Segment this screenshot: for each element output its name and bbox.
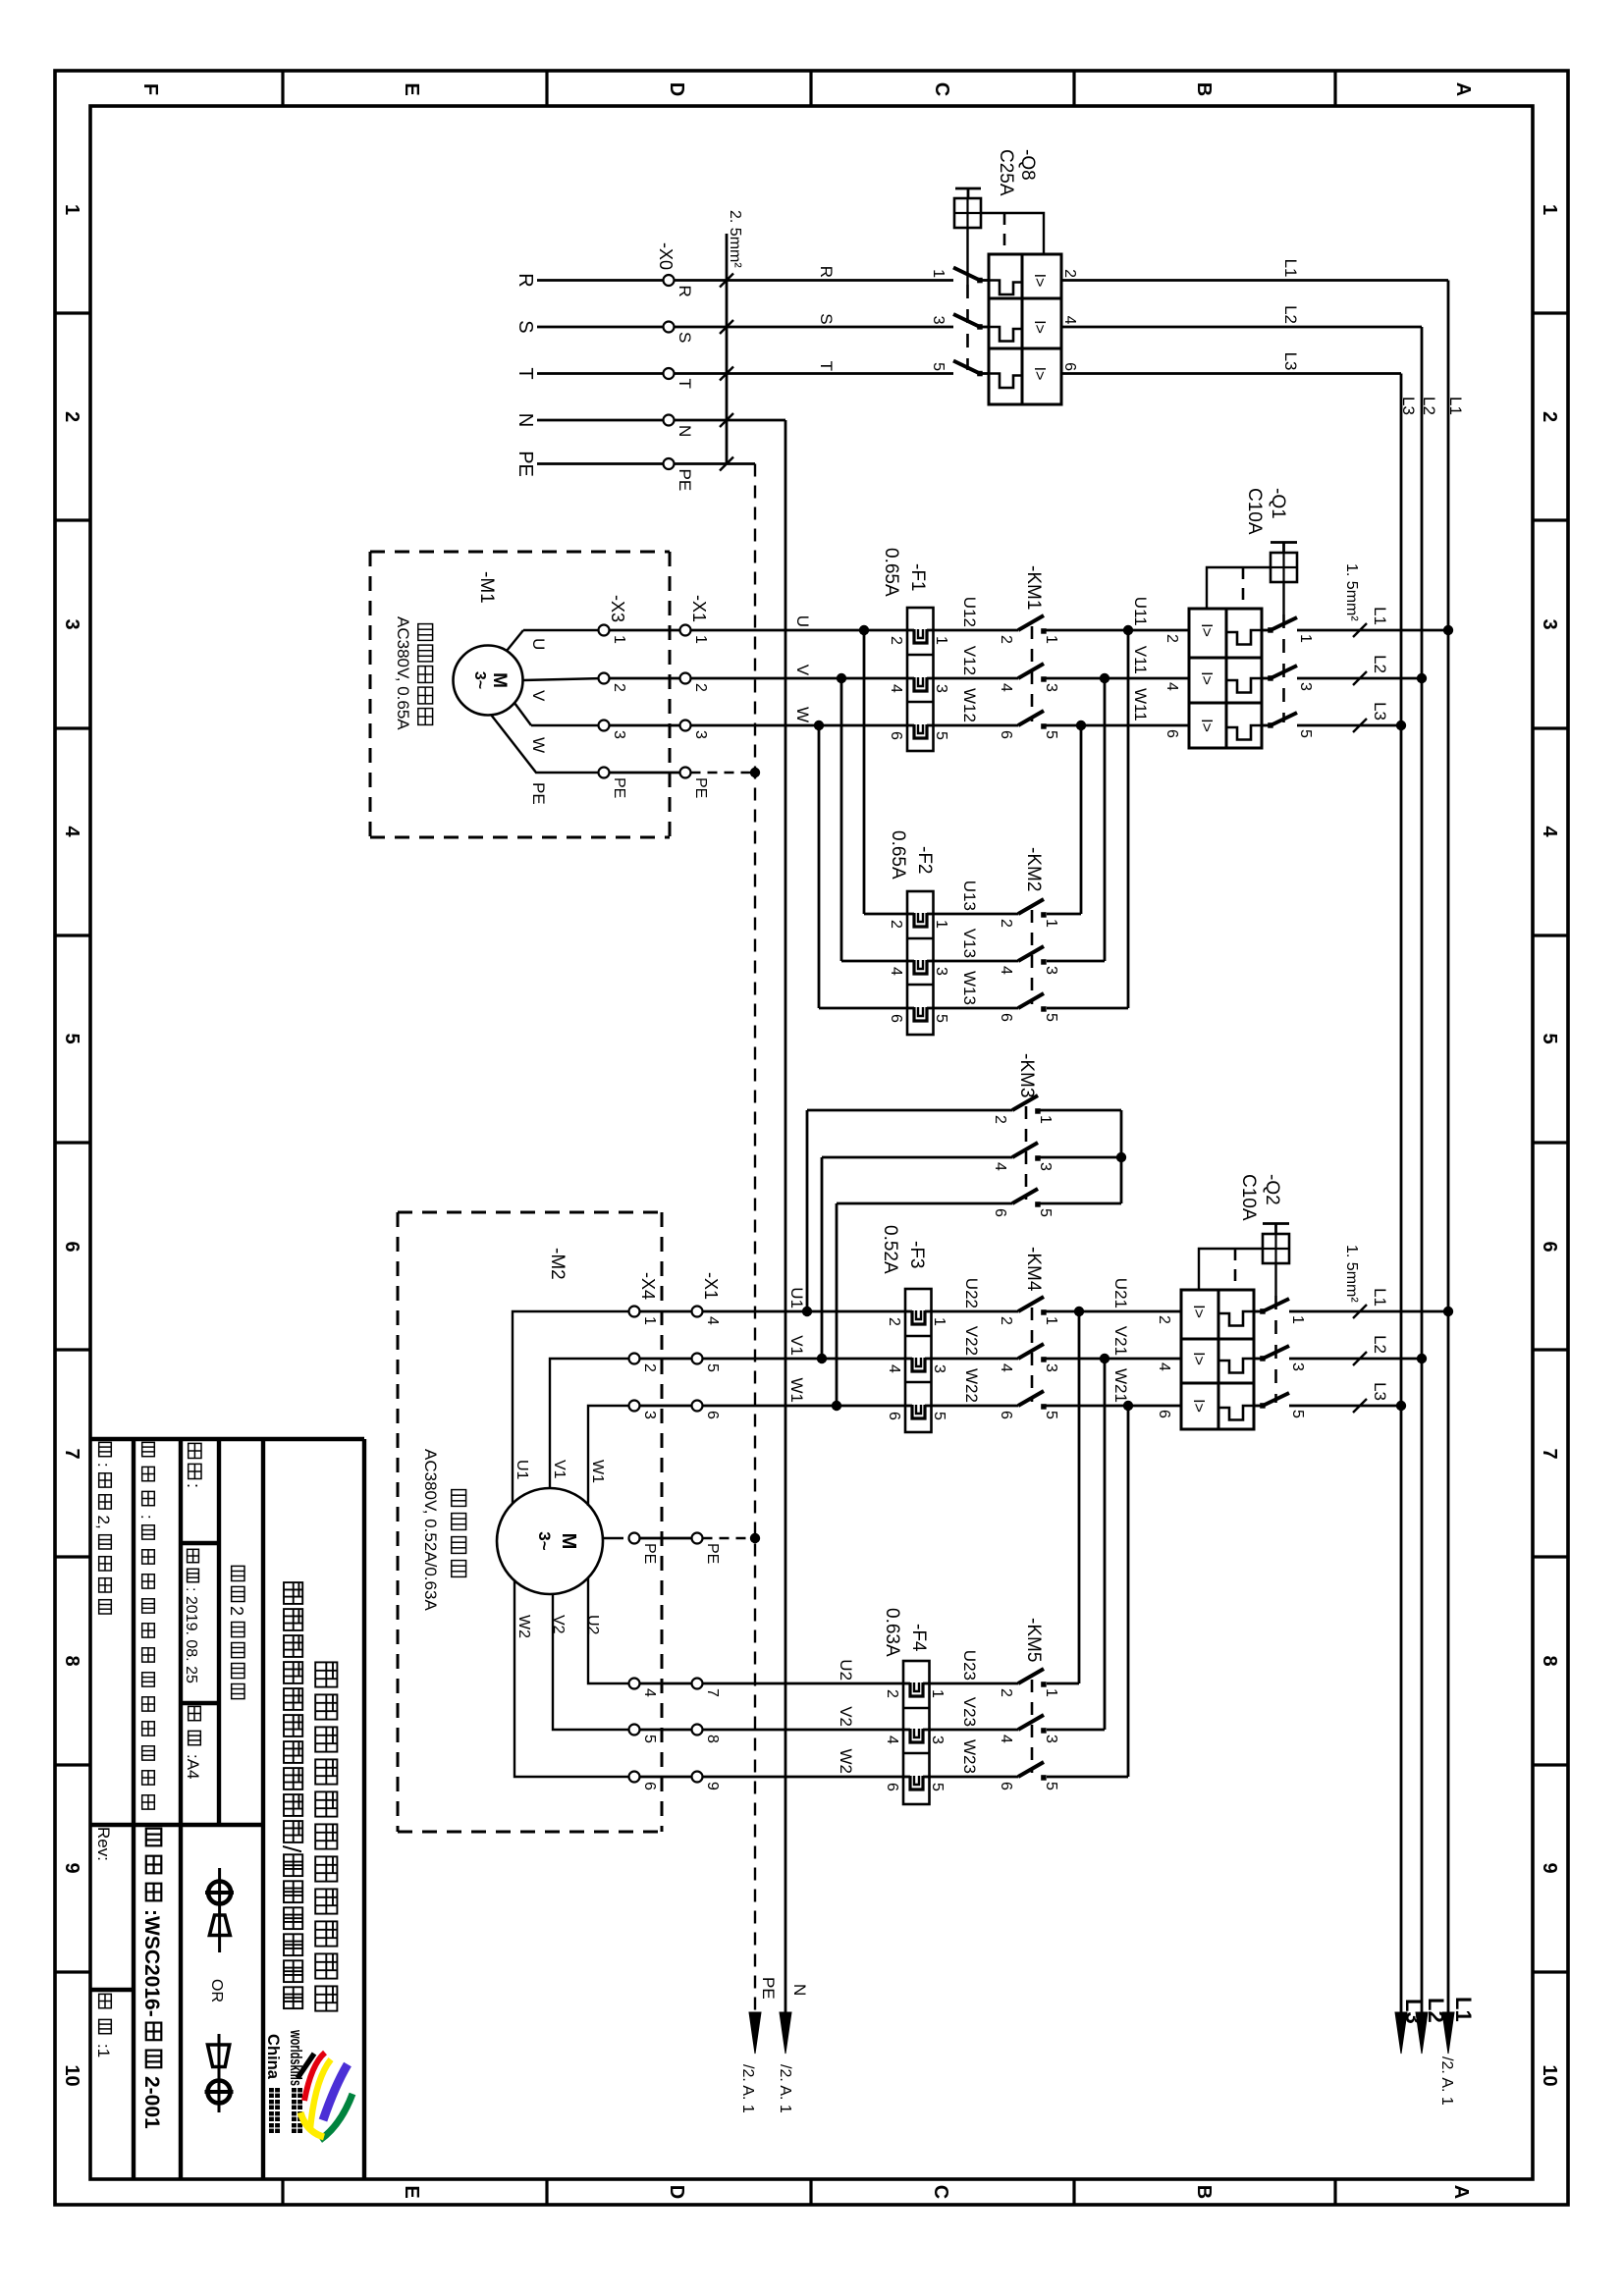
svg-text:1: 1 xyxy=(1043,635,1059,644)
svg-text:2,: 2, xyxy=(94,1516,113,1534)
svg-text:I>: I> xyxy=(1190,1305,1207,1318)
svg-text:5: 5 xyxy=(61,1033,82,1043)
svg-text:-X1: -X1 xyxy=(701,1272,721,1300)
svg-text:3: 3 xyxy=(1539,618,1560,629)
svg-text:-F4: -F4 xyxy=(908,1624,929,1652)
svg-text:L2: L2 xyxy=(1424,1998,1448,2023)
svg-text:2: 2 xyxy=(1156,1315,1172,1324)
svg-text:-M1: -M1 xyxy=(476,571,497,604)
svg-text:L2: L2 xyxy=(1281,305,1300,324)
svg-text:2: 2 xyxy=(888,920,904,929)
svg-text:L3: L3 xyxy=(1401,1999,1426,2024)
svg-text:V22: V22 xyxy=(962,1326,981,1356)
svg-text:L1: L1 xyxy=(1371,1288,1389,1307)
svg-text:D: D xyxy=(666,82,687,96)
svg-text:V21: V21 xyxy=(1111,1326,1130,1356)
svg-text:0.52A: 0.52A xyxy=(880,1225,900,1274)
svg-text:PE: PE xyxy=(529,782,548,805)
svg-text:PE: PE xyxy=(514,451,536,477)
svg-text:1: 1 xyxy=(61,204,82,215)
svg-text:3: 3 xyxy=(1289,1362,1306,1371)
svg-text:W: W xyxy=(529,737,548,753)
svg-text:I>: I> xyxy=(1198,671,1215,685)
svg-text:W21: W21 xyxy=(1111,1368,1130,1403)
svg-text:PE: PE xyxy=(676,469,694,492)
svg-text:7: 7 xyxy=(1539,1448,1560,1459)
svg-text:2-001: 2-001 xyxy=(140,2076,163,2129)
svg-text:W11: W11 xyxy=(1131,688,1150,721)
svg-text:4: 4 xyxy=(1156,1362,1172,1371)
svg-text:4: 4 xyxy=(1539,826,1560,837)
svg-text:-KM5: -KM5 xyxy=(1023,1618,1044,1662)
svg-text:9: 9 xyxy=(61,1862,82,1873)
svg-text:3: 3 xyxy=(1043,1363,1059,1372)
svg-text:V2: V2 xyxy=(837,1706,855,1727)
svg-text:-X0: -X0 xyxy=(656,242,676,270)
svg-text:6: 6 xyxy=(884,1783,900,1791)
svg-text:6: 6 xyxy=(998,1411,1014,1419)
svg-text:T: T xyxy=(817,361,836,371)
svg-text:10: 10 xyxy=(1539,2064,1560,2086)
svg-text:U23: U23 xyxy=(960,1650,979,1681)
svg-text:6: 6 xyxy=(992,1208,1008,1217)
svg-text:-KM1: -KM1 xyxy=(1023,565,1044,610)
svg-text:V1: V1 xyxy=(787,1335,806,1356)
svg-text:3: 3 xyxy=(930,316,947,325)
svg-text:L2: L2 xyxy=(1371,655,1389,673)
svg-text:PE: PE xyxy=(641,1543,658,1564)
svg-text:2: 2 xyxy=(998,1688,1014,1697)
svg-text:5: 5 xyxy=(929,1783,946,1791)
svg-text:2: 2 xyxy=(992,1115,1008,1124)
svg-text:Rev:: Rev: xyxy=(94,1827,113,1861)
svg-text:1: 1 xyxy=(1297,634,1314,643)
svg-text::WSC2016-: :WSC2016- xyxy=(140,1909,163,2017)
svg-text:2: 2 xyxy=(61,411,82,422)
svg-text:S: S xyxy=(817,313,836,324)
svg-text:4: 4 xyxy=(704,1316,721,1325)
svg-text:0.65A: 0.65A xyxy=(888,830,908,880)
svg-text:2: 2 xyxy=(1163,634,1180,643)
svg-text:0.63A: 0.63A xyxy=(882,1608,902,1657)
svg-text:6: 6 xyxy=(888,731,904,740)
svg-text:5: 5 xyxy=(1539,1033,1560,1043)
svg-text:V: V xyxy=(529,690,548,702)
svg-text:W22: W22 xyxy=(962,1368,981,1403)
svg-text:L3: L3 xyxy=(1371,1382,1389,1401)
svg-text:4: 4 xyxy=(886,1364,902,1373)
svg-text:2: 2 xyxy=(641,1363,658,1372)
svg-text:2: 2 xyxy=(611,683,627,692)
svg-text:S: S xyxy=(514,320,536,333)
svg-text:3: 3 xyxy=(692,730,709,739)
svg-text:V12: V12 xyxy=(960,646,979,675)
svg-text:-KM2: -KM2 xyxy=(1023,847,1044,891)
svg-text:1. 5mm²: 1. 5mm² xyxy=(1343,563,1360,621)
svg-text:4: 4 xyxy=(641,1688,658,1697)
svg-text:1: 1 xyxy=(1043,1688,1059,1697)
svg-text:M: M xyxy=(558,1533,579,1550)
svg-text:1: 1 xyxy=(933,920,949,929)
svg-text:3: 3 xyxy=(931,1364,947,1373)
svg-text:1: 1 xyxy=(1037,1115,1054,1124)
svg-text:2: 2 xyxy=(888,636,904,645)
svg-text:L2: L2 xyxy=(1371,1335,1389,1354)
svg-text:3~: 3~ xyxy=(471,671,488,689)
svg-text:W1: W1 xyxy=(787,1378,806,1404)
svg-text:U1: U1 xyxy=(514,1460,530,1480)
svg-text:6: 6 xyxy=(1061,362,1078,371)
svg-text:U2: U2 xyxy=(584,1615,601,1635)
svg-text:9: 9 xyxy=(1539,1862,1560,1873)
svg-text:M: M xyxy=(489,672,510,688)
svg-text:5: 5 xyxy=(931,1412,947,1420)
svg-text:5: 5 xyxy=(1037,1208,1054,1217)
svg-text:-F2: -F2 xyxy=(914,846,935,875)
svg-text:L1: L1 xyxy=(1371,607,1389,625)
svg-text:3: 3 xyxy=(929,1735,946,1744)
svg-text:B: B xyxy=(1193,2185,1215,2199)
svg-text:5: 5 xyxy=(1043,1013,1059,1022)
svg-text:-KM3: -KM3 xyxy=(1016,1053,1037,1097)
svg-text:6: 6 xyxy=(886,1412,902,1420)
svg-text:U: U xyxy=(529,638,548,650)
svg-text:4: 4 xyxy=(61,826,82,837)
svg-text:6: 6 xyxy=(1163,729,1180,738)
svg-text:6: 6 xyxy=(704,1411,721,1419)
svg-text:1: 1 xyxy=(1289,1315,1306,1324)
svg-text:3: 3 xyxy=(933,684,949,693)
svg-text:7: 7 xyxy=(704,1688,721,1697)
svg-text:V23: V23 xyxy=(960,1697,979,1727)
svg-text:2: 2 xyxy=(227,1606,246,1621)
svg-text:6: 6 xyxy=(641,1782,658,1790)
svg-text:6: 6 xyxy=(1156,1410,1172,1418)
svg-text:V1: V1 xyxy=(551,1460,568,1479)
svg-text:C10A: C10A xyxy=(1244,488,1265,535)
svg-text:5: 5 xyxy=(1043,1411,1059,1419)
svg-text:3: 3 xyxy=(1043,683,1059,692)
svg-text:C: C xyxy=(930,2185,951,2199)
svg-text:3: 3 xyxy=(1043,966,1059,975)
svg-text:U: U xyxy=(793,615,812,627)
svg-text:3: 3 xyxy=(641,1411,658,1419)
svg-text:E: E xyxy=(401,2185,422,2198)
svg-text:/2. A. 1: /2. A. 1 xyxy=(1438,2056,1455,2106)
svg-text:R: R xyxy=(514,273,536,287)
svg-text:W: W xyxy=(793,707,812,722)
svg-text:1. 5mm²: 1. 5mm² xyxy=(1343,1245,1360,1303)
svg-text:4: 4 xyxy=(998,1735,1014,1743)
svg-text:-M2: -M2 xyxy=(547,1248,568,1280)
svg-text:-X1: -X1 xyxy=(689,595,709,622)
svg-text:4: 4 xyxy=(1163,682,1180,691)
svg-text:W1: W1 xyxy=(589,1460,606,1483)
svg-text::: : xyxy=(184,1483,203,1488)
svg-text:1: 1 xyxy=(1539,204,1560,215)
svg-text:-F1: -F1 xyxy=(907,563,928,592)
svg-text:E: E xyxy=(401,82,422,95)
svg-text:PE: PE xyxy=(704,1543,721,1564)
svg-text:2: 2 xyxy=(692,683,709,692)
svg-text:2: 2 xyxy=(998,1316,1014,1325)
svg-text:W13: W13 xyxy=(960,971,979,1005)
svg-text:5: 5 xyxy=(704,1363,721,1372)
svg-text:N: N xyxy=(676,425,694,437)
svg-text:/2. A. 1: /2. A. 1 xyxy=(739,2064,756,2113)
svg-text:-F3: -F3 xyxy=(906,1241,927,1269)
svg-text:A: A xyxy=(1450,2185,1472,2199)
svg-text:L3: L3 xyxy=(1371,702,1389,721)
svg-text:6: 6 xyxy=(1539,1241,1560,1252)
svg-text:I>: I> xyxy=(1031,320,1048,334)
svg-text:V: V xyxy=(793,665,812,676)
svg-text:4: 4 xyxy=(1061,316,1078,325)
svg-text:-KM4: -KM4 xyxy=(1023,1247,1044,1292)
svg-text:6: 6 xyxy=(61,1241,82,1252)
svg-text:W2: W2 xyxy=(515,1615,532,1638)
svg-text:W23: W23 xyxy=(960,1739,979,1774)
svg-text:OR: OR xyxy=(208,1979,225,2002)
svg-text:F: F xyxy=(139,83,161,95)
svg-text:2: 2 xyxy=(998,919,1014,928)
svg-text:R: R xyxy=(676,286,694,297)
svg-text:worldskills: worldskills xyxy=(287,2029,305,2086)
svg-text:-X3: -X3 xyxy=(608,595,627,622)
svg-text:T: T xyxy=(676,379,694,389)
svg-text:I>: I> xyxy=(1031,367,1048,381)
svg-text:3~: 3~ xyxy=(535,1531,554,1550)
svg-text:1: 1 xyxy=(931,1317,947,1326)
svg-text:6: 6 xyxy=(998,1013,1014,1022)
svg-text:2: 2 xyxy=(886,1317,902,1326)
svg-text:U1: U1 xyxy=(787,1287,806,1308)
svg-text:5: 5 xyxy=(930,362,947,371)
svg-text:5: 5 xyxy=(1043,1782,1059,1790)
svg-text:N: N xyxy=(790,1984,809,1996)
svg-text:C10A: C10A xyxy=(1238,1174,1259,1221)
svg-text:8: 8 xyxy=(704,1735,721,1743)
svg-text:U13: U13 xyxy=(960,881,979,911)
svg-text:4: 4 xyxy=(888,684,904,693)
svg-text:1: 1 xyxy=(929,1689,946,1698)
svg-text:9: 9 xyxy=(704,1782,721,1790)
svg-text:C: C xyxy=(931,82,952,96)
svg-text:U2: U2 xyxy=(837,1659,855,1681)
svg-text:3: 3 xyxy=(1297,682,1314,691)
svg-text:2. 5mm²: 2. 5mm² xyxy=(727,210,743,268)
svg-text::: : xyxy=(137,1515,156,1523)
svg-text:L3: L3 xyxy=(1281,352,1300,371)
svg-text:3: 3 xyxy=(1043,1735,1059,1743)
svg-text:I>: I> xyxy=(1190,1399,1207,1413)
svg-text:B: B xyxy=(1193,82,1215,96)
svg-text:5: 5 xyxy=(1297,729,1314,738)
svg-text:PE: PE xyxy=(611,777,627,798)
svg-text:C25A: C25A xyxy=(996,149,1016,196)
svg-text:-Q8: -Q8 xyxy=(1017,149,1038,181)
svg-text:1: 1 xyxy=(1043,919,1059,928)
svg-text:3: 3 xyxy=(611,730,627,739)
svg-text:4: 4 xyxy=(992,1162,1008,1171)
svg-text:T: T xyxy=(514,367,536,379)
svg-text:U11: U11 xyxy=(1131,597,1150,626)
svg-text:S: S xyxy=(676,332,694,343)
svg-text:-X4: -X4 xyxy=(638,1272,658,1300)
svg-text:-Q1: -Q1 xyxy=(1268,488,1288,519)
svg-text:10: 10 xyxy=(61,2064,82,2086)
svg-text:5: 5 xyxy=(1289,1410,1306,1418)
svg-text:2: 2 xyxy=(1539,411,1560,422)
svg-text:3: 3 xyxy=(933,967,949,976)
svg-text:5: 5 xyxy=(1043,730,1059,739)
svg-text:1: 1 xyxy=(641,1316,658,1325)
svg-text:I>: I> xyxy=(1190,1352,1207,1365)
svg-text:4: 4 xyxy=(998,1363,1014,1372)
svg-text:I>: I> xyxy=(1031,274,1048,288)
svg-text:AC380V, 0.52A/0.63A: AC380V, 0.52A/0.63A xyxy=(421,1449,440,1611)
svg-text:I>: I> xyxy=(1198,719,1215,732)
svg-text:4: 4 xyxy=(888,967,904,976)
svg-text:A: A xyxy=(1452,82,1474,96)
svg-text:U12: U12 xyxy=(960,597,979,627)
svg-text:1: 1 xyxy=(1043,1316,1059,1325)
svg-text:R: R xyxy=(817,266,836,278)
svg-text:I>: I> xyxy=(1198,623,1215,637)
svg-text:L1: L1 xyxy=(1281,259,1300,278)
svg-text:0.65A: 0.65A xyxy=(881,548,901,597)
svg-text:-Q2: -Q2 xyxy=(1262,1174,1282,1205)
svg-text:PE: PE xyxy=(759,1977,778,2000)
svg-text::: : xyxy=(94,1463,113,1471)
svg-text:1: 1 xyxy=(692,635,709,644)
svg-text:2: 2 xyxy=(1061,269,1078,278)
svg-text:6: 6 xyxy=(998,1782,1014,1790)
svg-text:N: N xyxy=(514,413,536,427)
svg-text:PE: PE xyxy=(692,777,709,798)
svg-text:1: 1 xyxy=(930,269,947,278)
svg-text:D: D xyxy=(666,2185,687,2199)
svg-text:L2: L2 xyxy=(1420,397,1438,415)
svg-text:4: 4 xyxy=(998,683,1014,692)
svg-text:L1: L1 xyxy=(1451,1997,1476,2022)
svg-text:5: 5 xyxy=(641,1735,658,1743)
svg-text:/2. A. 1: /2. A. 1 xyxy=(777,2064,793,2113)
svg-text::1: :1 xyxy=(94,2044,113,2057)
svg-text:: 2019. 08. 25: : 2019. 08. 25 xyxy=(183,1587,199,1683)
svg-text:5: 5 xyxy=(933,731,949,740)
svg-text:7: 7 xyxy=(61,1448,82,1459)
svg-text:1: 1 xyxy=(611,635,627,644)
svg-text:W2: W2 xyxy=(837,1749,855,1775)
svg-text:3: 3 xyxy=(1037,1162,1054,1171)
svg-text:/: / xyxy=(277,1845,306,1853)
svg-text:2: 2 xyxy=(998,635,1014,644)
svg-text::A4: :A4 xyxy=(184,1754,202,1780)
svg-text:5: 5 xyxy=(933,1014,949,1023)
svg-text:3: 3 xyxy=(61,618,82,629)
svg-text:AC380V, 0.65A: AC380V, 0.65A xyxy=(394,616,412,730)
svg-text:China: China xyxy=(264,2034,283,2080)
svg-text:4: 4 xyxy=(884,1735,900,1744)
svg-text:L1: L1 xyxy=(1446,397,1465,415)
svg-text:6: 6 xyxy=(998,730,1014,739)
svg-text:2: 2 xyxy=(884,1689,900,1698)
svg-text:W12: W12 xyxy=(960,688,979,722)
svg-text:L3: L3 xyxy=(1399,397,1418,415)
svg-text:6: 6 xyxy=(888,1014,904,1023)
svg-text:V11: V11 xyxy=(1131,646,1150,674)
svg-text:8: 8 xyxy=(61,1655,82,1666)
svg-text:8: 8 xyxy=(1539,1655,1560,1666)
svg-text:V13: V13 xyxy=(960,929,979,958)
svg-text:U21: U21 xyxy=(1111,1278,1130,1308)
svg-text:1: 1 xyxy=(933,636,949,645)
svg-text:V2: V2 xyxy=(550,1615,567,1634)
svg-text:U22: U22 xyxy=(962,1278,981,1308)
svg-text:4: 4 xyxy=(998,966,1014,975)
